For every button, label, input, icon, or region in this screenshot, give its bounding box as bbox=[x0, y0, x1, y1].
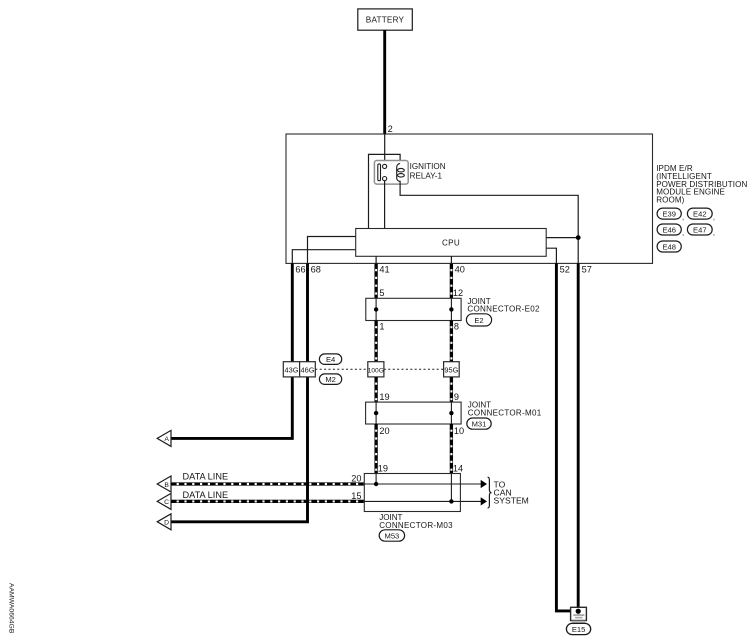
wire inside M03 row B bbox=[364, 483, 460, 485]
svg-text:12: 12 bbox=[453, 288, 463, 298]
relay coil winding bbox=[398, 168, 405, 172]
wire 40 shielded segment 95G to M01 bbox=[450, 377, 453, 402]
svg-text:43G: 43G bbox=[285, 365, 299, 374]
CPU U1 bbox=[356, 229, 547, 257]
wire M03 to CAN out 2 bbox=[460, 500, 481, 502]
wire CPU bottom to pin 41 (thin) bbox=[375, 256, 377, 263]
connector oval M31 bbox=[467, 418, 491, 429]
wire CPU left to pin 66 bbox=[292, 250, 355, 264]
wire battery to IPDM pin 2 bbox=[383, 30, 386, 134]
wire 68: IPDM pin 68 to connector D bbox=[171, 263, 308, 521]
junction dot M01 left bbox=[374, 411, 378, 415]
connector oval E46 bbox=[657, 224, 684, 237]
wire 41 shielded segment IPDM to E02 bbox=[375, 263, 378, 298]
wire CPU bottom to pin 40 (thin) bbox=[450, 256, 452, 263]
wire 66: IPDM pin 66 to connector A bbox=[171, 263, 292, 438]
wire inside E02 right bbox=[450, 298, 452, 320]
connector arrow B bbox=[157, 476, 171, 492]
wire M03 to CAN out 1 bbox=[460, 483, 481, 485]
wire pin2 to relay contact (thin, inside IPDM) bbox=[384, 134, 386, 164]
wire 41 shielded segment E02 to 100G bbox=[375, 321, 378, 362]
svg-text:E4: E4 bbox=[326, 355, 335, 364]
connector oval E2 bbox=[466, 314, 491, 326]
wire inside E02 left bbox=[375, 298, 377, 320]
svg-text:BATTERY: BATTERY bbox=[366, 16, 405, 25]
svg-text:15: 15 bbox=[351, 491, 361, 501]
arrow CAN out 2 bbox=[481, 497, 487, 505]
connector arrow A bbox=[157, 430, 171, 446]
connector oval E42 bbox=[687, 208, 715, 221]
svg-text:SYSTEM: SYSTEM bbox=[494, 495, 529, 505]
svg-text:CONNECTOR-M03: CONNECTOR-M03 bbox=[379, 521, 453, 530]
ground bar 1 bbox=[573, 614, 584, 616]
IPDM E/R box bbox=[286, 134, 653, 263]
wire inside M03 row C bbox=[364, 500, 460, 502]
relay coil bracket bbox=[397, 164, 400, 182]
wire relay contact bottom to CPU bbox=[384, 181, 386, 229]
inline connector 100G bbox=[368, 362, 384, 377]
svg-text:20: 20 bbox=[351, 473, 361, 483]
connector oval E15 bbox=[566, 623, 590, 634]
wire 57: IPDM pin 57 to ground E15 bbox=[577, 263, 580, 611]
svg-text:95G: 95G bbox=[444, 365, 458, 374]
svg-text:B: B bbox=[164, 482, 169, 489]
svg-text:66: 66 bbox=[295, 264, 305, 274]
svg-text:46G: 46G bbox=[301, 365, 315, 374]
svg-text:57: 57 bbox=[582, 264, 592, 274]
svg-text:9: 9 bbox=[454, 392, 459, 402]
IPDM E/R side label bbox=[656, 164, 747, 205]
relay contact top bbox=[383, 164, 387, 168]
svg-text:5: 5 bbox=[379, 288, 384, 298]
wire relay coil to node at 57 bbox=[400, 181, 578, 264]
wire 40 shielded segment M01 to M03 bbox=[450, 424, 453, 474]
svg-text:10: 10 bbox=[454, 426, 464, 436]
svg-text:41: 41 bbox=[379, 264, 389, 274]
svg-text:C: C bbox=[164, 499, 169, 506]
wire inside M01 right bbox=[450, 402, 452, 424]
ground pad bbox=[572, 621, 586, 624]
splice dotted line bbox=[315, 368, 368, 370]
inline connector 95G bbox=[444, 362, 460, 377]
connector oval M2 bbox=[319, 374, 341, 385]
battery B1 bbox=[358, 9, 413, 30]
wire inside M01 left bbox=[375, 402, 377, 424]
svg-text:CONNECTOR-E02: CONNECTOR-E02 bbox=[467, 305, 540, 314]
wire 40 shielded segment E02 to 95G bbox=[450, 321, 453, 362]
junction dot E02 right bbox=[449, 307, 453, 311]
wire B shielded data line to M03 pin 20 bbox=[171, 483, 364, 486]
svg-text:RELAY-1: RELAY-1 bbox=[410, 172, 443, 181]
wire CPU top to relay coil (wraps over relay) bbox=[369, 154, 401, 228]
junction dot M03 B bbox=[374, 482, 378, 486]
arrow CAN out 1 bbox=[481, 480, 487, 488]
svg-text:M53: M53 bbox=[385, 532, 400, 541]
ignition relay-1 bbox=[374, 161, 408, 185]
wire inside M03 from pin 14 bbox=[450, 474, 452, 502]
wire inside M03 from pin 19 bbox=[375, 474, 377, 485]
ground junction dot bbox=[576, 609, 581, 614]
svg-text:2: 2 bbox=[388, 124, 393, 134]
wire CPU right to pin 52 bbox=[546, 248, 556, 263]
wire C shielded data line to M03 pin 15 bbox=[171, 500, 364, 503]
wire 41 shielded segment M01 to M03 bbox=[375, 424, 378, 474]
inline connector 43G bbox=[283, 362, 299, 377]
svg-text:,: , bbox=[713, 212, 715, 221]
svg-text:E47: E47 bbox=[693, 226, 707, 235]
svg-text:19: 19 bbox=[378, 464, 388, 474]
junction node at 57 bbox=[576, 235, 581, 240]
connector oval M53 bbox=[379, 530, 404, 541]
wire 52: IPDM pin 52 to ground box bbox=[556, 263, 570, 611]
joint connector M01 box bbox=[366, 402, 462, 424]
svg-text:E42: E42 bbox=[693, 210, 707, 219]
svg-text:D: D bbox=[164, 520, 169, 527]
svg-text:68: 68 bbox=[311, 264, 321, 274]
connector oval E39 bbox=[657, 208, 684, 221]
svg-text:E39: E39 bbox=[662, 210, 676, 219]
joint connector E02 box bbox=[366, 298, 461, 320]
wire 40 shielded segment IPDM to E02 bbox=[450, 263, 453, 298]
svg-text:M2: M2 bbox=[325, 375, 336, 384]
svg-text:14: 14 bbox=[453, 464, 463, 474]
junction dot E02 left bbox=[374, 307, 378, 311]
wire 41 shielded segment 100G to M01 bbox=[375, 377, 378, 402]
svg-text:E46: E46 bbox=[662, 226, 676, 235]
svg-text:E48: E48 bbox=[662, 243, 676, 252]
junction dot M03 C bbox=[449, 499, 453, 503]
wire CPU left to pin 68 bbox=[308, 237, 356, 264]
svg-text:IGNITION: IGNITION bbox=[410, 162, 446, 171]
connector arrow D bbox=[157, 514, 171, 530]
svg-text:ROOM): ROOM) bbox=[656, 196, 684, 205]
svg-text:E15: E15 bbox=[572, 625, 586, 634]
svg-text:,: , bbox=[682, 212, 684, 221]
relay contact bottom bbox=[383, 177, 387, 181]
svg-text:DATA LINE: DATA LINE bbox=[183, 472, 229, 482]
svg-text:1: 1 bbox=[379, 322, 384, 332]
connector oval E4 bbox=[319, 354, 341, 365]
svg-text:,: , bbox=[682, 228, 684, 237]
svg-text:E2: E2 bbox=[474, 316, 483, 325]
ground bar 2 bbox=[575, 617, 582, 619]
svg-text:8: 8 bbox=[454, 322, 459, 332]
svg-text:19: 19 bbox=[379, 392, 389, 402]
wire CPU right to node bbox=[546, 237, 578, 239]
svg-text:CONNECTOR-M01: CONNECTOR-M01 bbox=[468, 409, 542, 418]
svg-text:40: 40 bbox=[455, 264, 465, 274]
connector oval E48 bbox=[657, 241, 681, 252]
svg-text:DATA LINE: DATA LINE bbox=[183, 490, 229, 500]
svg-text:CPU: CPU bbox=[442, 238, 460, 247]
svg-text:52: 52 bbox=[560, 264, 570, 274]
connector arrow C bbox=[157, 493, 171, 509]
svg-text:A: A bbox=[164, 436, 169, 443]
joint connector M03 box bbox=[364, 474, 460, 512]
ground E15 bbox=[571, 607, 587, 623]
junction dot M01 right bbox=[449, 411, 453, 415]
svg-text:,: , bbox=[713, 228, 715, 237]
svg-text:20: 20 bbox=[379, 426, 389, 436]
ground stem bbox=[577, 611, 579, 615]
svg-text:AAMWA0664GB: AAMWA0664GB bbox=[8, 583, 15, 634]
inline connector 46G bbox=[300, 362, 316, 377]
svg-text:100G: 100G bbox=[368, 367, 384, 374]
relay switch bar bbox=[378, 164, 381, 181]
brace to CAN system bbox=[488, 477, 492, 508]
svg-text:M31: M31 bbox=[472, 420, 487, 429]
connector oval E47 bbox=[687, 224, 715, 237]
